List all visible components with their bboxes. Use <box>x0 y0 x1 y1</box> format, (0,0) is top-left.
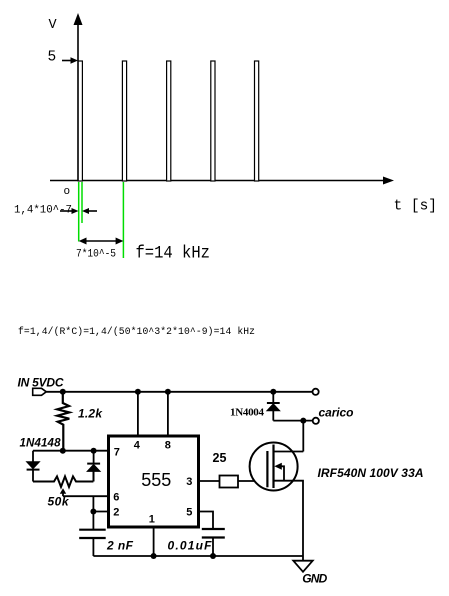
diode D1 1N4148 left <box>32 451 34 462</box>
bottom rail wire <box>93 555 303 557</box>
wire R3 to gate <box>238 480 267 482</box>
svg-text:6: 6 <box>113 492 119 504</box>
svg-text:3: 3 <box>186 476 192 488</box>
pulse 3 <box>167 61 171 181</box>
capacitor C2 0.01uF <box>202 528 225 530</box>
node dot R1 top <box>60 389 66 395</box>
wire pin1 <box>153 527 155 556</box>
x-axis <box>50 180 386 182</box>
svg-text:o: o <box>64 186 71 198</box>
svg-text:GND: GND <box>302 572 327 586</box>
svg-text:7*10^-5: 7*10^-5 <box>76 249 116 261</box>
green marker line 2 <box>81 182 83 223</box>
wire pin8 <box>167 392 169 436</box>
node dot D3 top <box>270 389 276 395</box>
gate line <box>266 451 268 487</box>
diode D2 1N4148 right <box>93 451 95 464</box>
svg-text:f=14 kHz: f=14 kHz <box>136 244 211 264</box>
dim arrow left <box>60 210 73 212</box>
wire carico node <box>273 420 312 422</box>
transistor Q1 IRF540N <box>250 443 298 491</box>
dim arrow right <box>88 210 97 212</box>
svg-text:7: 7 <box>114 446 120 458</box>
svg-text:V: V <box>49 18 58 33</box>
green marker line 3 <box>122 182 124 258</box>
svg-text:25: 25 <box>213 451 227 465</box>
pot right wire up <box>92 471 94 482</box>
capacitor C1 2nF <box>79 529 106 531</box>
pulse 1 <box>78 61 82 181</box>
y-axis <box>77 22 79 181</box>
svg-text:5: 5 <box>48 50 57 66</box>
node dot pin8 <box>165 389 171 395</box>
svg-text:IN 5VDC: IN 5VDC <box>18 376 64 390</box>
svg-text:2: 2 <box>113 506 119 518</box>
diode D3 1N4004 <box>272 392 274 403</box>
node dot pin2 <box>90 509 96 515</box>
ground <box>293 561 312 572</box>
IC U1 555 box <box>109 436 199 527</box>
svg-text:4: 4 <box>134 440 141 452</box>
channel line <box>272 445 274 489</box>
wire pin4 <box>137 392 139 436</box>
output terminal carico <box>313 418 319 424</box>
node dot pin1 bottom <box>151 553 157 559</box>
node dot drain top <box>300 418 306 424</box>
pulse 2 <box>122 61 126 181</box>
arrow 5 <box>62 60 72 62</box>
node dot R1 bottom <box>60 448 66 454</box>
output terminal top <box>313 389 319 395</box>
wire pin3 <box>199 480 220 482</box>
drain wire <box>274 451 304 453</box>
svg-text:f=1,4/(R*C)=1,4/(50*10^3*2*10^: f=1,4/(R*C)=1,4/(50*10^3*2*10^-9)=14 kHz <box>18 326 255 337</box>
wire down to C1 <box>92 496 94 529</box>
green marker line 1 <box>78 182 80 242</box>
svg-text:IRF540N 100V 33A: IRF540N 100V 33A <box>318 466 424 480</box>
svg-text:8: 8 <box>165 440 171 452</box>
svg-text:555: 555 <box>141 470 171 490</box>
svg-text:5: 5 <box>186 506 192 518</box>
top rail wire <box>46 391 313 393</box>
svg-text:1.2k: 1.2k <box>78 407 103 421</box>
input terminal <box>33 388 47 395</box>
pulse 5 <box>255 61 259 181</box>
node dot C2 bottom <box>210 553 216 559</box>
wire pin5 <box>199 512 214 529</box>
resistor R1 1.2k <box>57 392 69 451</box>
svg-text:1N4148: 1N4148 <box>20 438 62 450</box>
source wire <box>274 481 304 561</box>
wire pin2 <box>93 511 110 513</box>
pot wiper arrow <box>60 488 66 494</box>
svg-text:1N4004: 1N4004 <box>230 407 265 419</box>
svg-text:2 nF: 2 nF <box>106 539 134 553</box>
node dot pin4 <box>135 389 141 395</box>
resistor R3 25 (box style) <box>220 476 239 488</box>
svg-text:carico: carico <box>319 406 354 420</box>
double arrow 7*10^-5 <box>82 240 120 242</box>
wire pin7 horizontal <box>33 450 110 452</box>
svg-text:t [s]: t [s] <box>394 199 438 215</box>
svg-text:1: 1 <box>149 513 155 525</box>
body arrow <box>274 463 282 470</box>
node dot D2 top <box>91 448 97 454</box>
wire wiper to pin6 <box>63 495 110 497</box>
pulse 4 <box>211 61 215 181</box>
wire drain vertical <box>302 421 304 452</box>
potentiometer 50k body <box>33 476 93 487</box>
